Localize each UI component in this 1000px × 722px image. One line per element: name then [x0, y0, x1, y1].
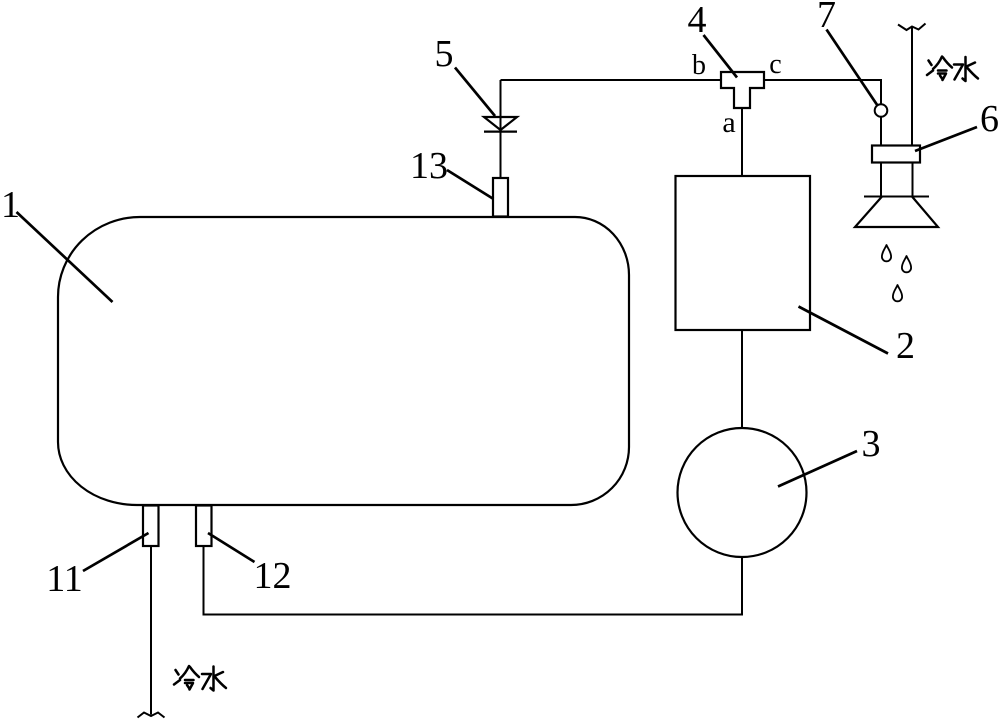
cold water text (top right)	[927, 57, 978, 82]
wire: cold water supply pipe down to mixer 6	[911, 27, 913, 146]
water droplet 2	[902, 256, 911, 272]
wire: pipe from fitting 13 up through check valve 5	[500, 80, 502, 178]
svg-text:3: 3	[862, 423, 881, 465]
wire: pipe from check valve 5 corner right to tee 4 port b	[501, 79, 723, 81]
fitting 13 (tank top port)	[493, 178, 508, 217]
sensor 7 (small circle on hot pipe)	[875, 104, 888, 117]
water droplet 1	[882, 245, 891, 261]
leader line to tee 4	[704, 35, 738, 78]
leader line to sensor 7	[827, 30, 878, 106]
leader line to check valve 5	[455, 68, 495, 117]
wire: hot pipe from tee 4 port c right then down to mixer 6	[764, 80, 881, 146]
wire: pipe from heater 2 down to pump 3	[741, 330, 743, 428]
wire	[912, 163, 914, 197]
svg-text:1: 1	[1, 184, 20, 226]
leader line to heater 2	[799, 307, 889, 354]
svg-text:b: b	[692, 50, 706, 81]
fitting 12 (tank bottom port)	[196, 506, 212, 547]
svg-text:11: 11	[46, 558, 83, 600]
svg-text:12: 12	[254, 555, 292, 597]
leader line to fitting 12	[208, 533, 255, 562]
fitting 11 (tank bottom cold water inlet)	[143, 506, 159, 547]
leader line to tank 1	[17, 212, 113, 302]
check valve 5 (triangle + bar)	[484, 117, 517, 132]
wire: pipe from pump 3 down, left along bottom, up to fitting 12	[204, 546, 743, 615]
wire: twin pipes from mixer 6 down to shower head	[880, 163, 882, 197]
break symbol at bottom of cold water pipe	[138, 713, 165, 718]
wire: cold water inlet pipe below fitting 11	[150, 546, 152, 715]
svg-text:4: 4	[688, 0, 707, 41]
leader line to mixer 6	[915, 127, 977, 151]
leader line to fitting 13	[447, 170, 494, 199]
tee junction 4	[721, 72, 764, 108]
svg-text:6: 6	[980, 98, 999, 140]
heater box 2	[676, 176, 811, 330]
svg-text:c: c	[769, 49, 781, 80]
svg-text:a: a	[722, 106, 735, 139]
leader line to pump 3	[778, 451, 857, 487]
tank 1 (water tank body)	[58, 217, 629, 505]
pump 3 (circle)	[678, 428, 807, 557]
water droplet 3	[893, 285, 902, 301]
cold water text (bottom)	[174, 666, 226, 691]
mixer valve 6 (box)	[872, 146, 920, 163]
svg-text:2: 2	[896, 325, 915, 367]
svg-text:5: 5	[435, 33, 454, 75]
leader line to fitting 11	[83, 533, 149, 571]
break symbol at top of cold water supply pipe	[898, 24, 926, 31]
shower head cone	[855, 197, 938, 228]
wire: pipe from tee 4 port a down to heater 2	[741, 108, 743, 176]
svg-text:13: 13	[410, 145, 448, 187]
shower head flange line	[864, 196, 929, 198]
